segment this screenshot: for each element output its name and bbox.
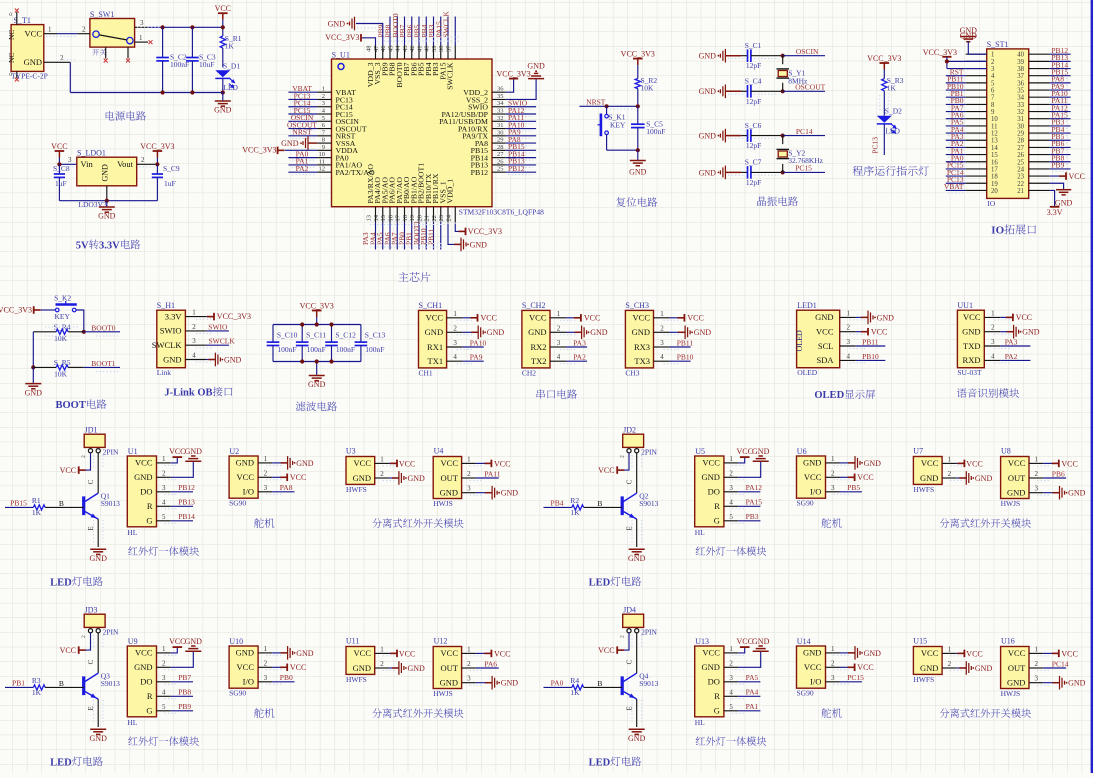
svg-text:GND: GND	[590, 328, 608, 337]
svg-text:1K: 1K	[570, 508, 580, 517]
svg-text:GND: GND	[236, 458, 254, 468]
svg-text:33: 33	[497, 108, 504, 115]
svg-text:R: R	[147, 501, 153, 511]
svg-text:VCC_3V3: VCC_3V3	[867, 54, 901, 63]
svg-text:13: 13	[991, 138, 998, 145]
svg-text:VCC: VCC	[804, 472, 822, 482]
svg-text:HL: HL	[127, 528, 137, 537]
svg-text:GND: GND	[353, 663, 371, 673]
svg-text:S_C1: S_C1	[745, 41, 762, 50]
svg-text:B: B	[597, 679, 602, 688]
svg-text:1: 1	[847, 309, 851, 317]
svg-text:GND: GND	[975, 664, 993, 673]
svg-text:100nF: 100nF	[336, 345, 355, 354]
svg-text:GND: GND	[214, 106, 232, 115]
svg-text:28: 28	[1017, 138, 1024, 145]
svg-text:VCC: VCC	[354, 458, 372, 468]
svg-text:VCC: VCC	[215, 4, 231, 13]
svg-text:GND: GND	[527, 62, 545, 71]
svg-text:C: C	[87, 659, 95, 664]
svg-text:SWCLK: SWCLK	[442, 11, 451, 38]
svg-text:PA1: PA1	[746, 702, 759, 711]
svg-text:U6: U6	[797, 447, 807, 456]
svg-text:1: 1	[831, 455, 835, 463]
svg-text:11: 11	[991, 123, 998, 130]
svg-text:VCC: VCC	[426, 313, 444, 323]
svg-text:OUT: OUT	[1008, 663, 1026, 673]
svg-text:VCC_3V3: VCC_3V3	[140, 142, 174, 151]
svg-text:1K: 1K	[887, 83, 897, 92]
svg-text:3: 3	[453, 339, 457, 347]
svg-text:OUT: OUT	[1008, 473, 1026, 483]
svg-text:9: 9	[991, 109, 995, 116]
svg-text:STM32F103C8T6_LQFP48: STM32F103C8T6_LQFP48	[459, 208, 544, 217]
svg-text:U10: U10	[229, 637, 243, 646]
svg-text:PB0: PB0	[280, 673, 293, 682]
svg-text:VCC: VCC	[237, 472, 255, 482]
svg-text:GND: GND	[487, 328, 505, 337]
svg-text:12pF: 12pF	[746, 178, 761, 187]
svg-text:4: 4	[847, 352, 851, 360]
svg-text:5: 5	[162, 703, 166, 711]
svg-text:GND: GND	[501, 489, 519, 498]
svg-text:Vin: Vin	[81, 159, 94, 169]
svg-text:PB10: PB10	[677, 353, 694, 362]
svg-text:CH1: CH1	[419, 368, 433, 377]
svg-text:37: 37	[1017, 73, 1024, 80]
svg-text:PB11: PB11	[862, 337, 879, 346]
svg-text:PB14: PB14	[178, 512, 195, 521]
svg-text:31: 31	[1017, 116, 1024, 123]
svg-text:1: 1	[264, 645, 268, 653]
svg-text:CH3: CH3	[625, 368, 639, 377]
svg-text:GND: GND	[90, 734, 108, 743]
svg-text:30: 30	[1017, 123, 1024, 130]
svg-text:3: 3	[322, 100, 325, 107]
svg-text:6: 6	[991, 88, 995, 95]
svg-text:PC13: PC13	[871, 137, 880, 154]
svg-text:1uF: 1uF	[55, 179, 67, 188]
svg-text:GND: GND	[1068, 679, 1086, 688]
svg-text:1: 1	[729, 455, 733, 463]
svg-text:4: 4	[162, 498, 166, 506]
svg-text:VCC: VCC	[51, 142, 67, 151]
svg-text:32: 32	[1017, 109, 1024, 116]
svg-text:PA3: PA3	[1005, 337, 1018, 346]
svg-text:VCC: VCC	[921, 458, 939, 468]
svg-text:HWFS: HWFS	[346, 485, 367, 494]
svg-text:DO: DO	[708, 487, 720, 497]
svg-text:S_C8: S_C8	[53, 164, 70, 173]
svg-text:10K: 10K	[54, 334, 68, 343]
svg-text:2: 2	[831, 659, 835, 667]
svg-text:JD4: JD4	[623, 606, 636, 615]
svg-text:1K: 1K	[32, 688, 42, 697]
svg-text:S_C11: S_C11	[306, 330, 326, 339]
svg-text:3.3V: 3.3V	[165, 311, 183, 321]
svg-text:GND: GND	[224, 355, 242, 364]
svg-text:LED: LED	[50, 757, 72, 768]
svg-text:4: 4	[162, 688, 166, 696]
svg-text:PB8: PB8	[178, 688, 191, 697]
svg-text:GND: GND	[90, 554, 108, 563]
svg-text:2: 2	[1035, 660, 1039, 668]
svg-text:RXD: RXD	[963, 355, 981, 365]
svg-text:PA8: PA8	[280, 483, 293, 492]
svg-text:VCC: VCC	[1008, 648, 1026, 658]
svg-text:VCC_3V3: VCC_3V3	[0, 306, 32, 315]
svg-text:8MHz: 8MHz	[788, 76, 808, 85]
svg-text:U13: U13	[695, 637, 709, 646]
svg-text:VCC: VCC	[237, 662, 255, 672]
svg-text:Link: Link	[157, 368, 171, 377]
svg-text:PC14: PC14	[796, 127, 813, 136]
svg-text:JD2: JD2	[623, 426, 636, 435]
svg-text:NRST: NRST	[586, 98, 606, 107]
svg-text:HWJS: HWJS	[433, 689, 453, 698]
svg-text:TYPE-C-2P: TYPE-C-2P	[11, 72, 48, 81]
svg-text:VCC_3V3: VCC_3V3	[923, 48, 957, 57]
svg-text:GND: GND	[752, 447, 770, 456]
svg-text:S_T1: S_T1	[14, 16, 31, 25]
svg-text:24: 24	[1017, 166, 1024, 173]
svg-text:B: B	[59, 679, 64, 688]
svg-text:2: 2	[264, 659, 268, 667]
svg-text:47: 47	[373, 45, 380, 52]
svg-text:OUT: OUT	[441, 663, 459, 673]
svg-text:40: 40	[424, 46, 431, 53]
svg-text:29: 29	[497, 137, 504, 144]
svg-text:GND: GND	[960, 32, 978, 41]
svg-text:S_H1: S_H1	[157, 301, 175, 310]
svg-text:HWJS: HWJS	[433, 499, 453, 508]
svg-text:2: 2	[162, 659, 166, 667]
svg-text:GND: GND	[408, 474, 426, 483]
svg-text:DO: DO	[140, 677, 152, 687]
svg-text:PA2: PA2	[296, 164, 309, 173]
svg-text:3: 3	[162, 484, 166, 492]
svg-text:VCC: VCC	[687, 314, 703, 323]
svg-text:VCC: VCC	[399, 649, 415, 658]
svg-text:VCC: VCC	[354, 648, 372, 658]
svg-text:S_C6: S_C6	[745, 121, 762, 130]
svg-text:GND: GND	[920, 663, 938, 673]
svg-text:OLED: OLED	[814, 390, 844, 401]
svg-text:VCC: VCC	[1069, 172, 1085, 181]
svg-text:GND: GND	[470, 240, 488, 249]
svg-text:LED: LED	[885, 126, 900, 135]
svg-text:25: 25	[497, 166, 504, 173]
svg-text:2: 2	[162, 469, 166, 477]
svg-text:E: E	[87, 526, 95, 530]
svg-text:S_C9: S_C9	[163, 164, 180, 173]
svg-text:GND: GND	[25, 388, 43, 397]
svg-text:U4: U4	[434, 447, 444, 456]
svg-text:VCC: VCC	[135, 458, 153, 468]
svg-text:4: 4	[729, 498, 733, 506]
svg-text:12pF: 12pF	[746, 61, 761, 70]
svg-text:S_C13: S_C13	[365, 330, 386, 339]
svg-text:GND: GND	[1022, 328, 1040, 337]
svg-text:S9013: S9013	[639, 679, 658, 688]
svg-text:PA6: PA6	[484, 659, 497, 668]
svg-text:GND: GND	[628, 734, 646, 743]
svg-text:26: 26	[497, 158, 504, 165]
svg-text:S_CH2: S_CH2	[522, 301, 546, 310]
svg-text:10uF: 10uF	[199, 60, 214, 69]
svg-text:LED: LED	[50, 577, 72, 588]
svg-text:3: 3	[831, 674, 835, 682]
svg-text:2: 2	[467, 470, 471, 478]
svg-text:LED1: LED1	[797, 301, 817, 310]
svg-text:GND: GND	[962, 327, 980, 337]
svg-text:RX2: RX2	[530, 342, 546, 352]
svg-text:5V: 5V	[76, 240, 89, 251]
svg-text:PA15: PA15	[746, 498, 763, 507]
svg-text:3: 3	[467, 675, 471, 683]
svg-text:VCC: VCC	[481, 314, 497, 323]
svg-text:G: G	[714, 706, 720, 716]
svg-text:S_C7: S_C7	[745, 158, 762, 167]
svg-text:2: 2	[192, 323, 196, 331]
svg-text:2: 2	[991, 59, 995, 66]
svg-text:PA12: PA12	[746, 483, 763, 492]
svg-text:28: 28	[497, 144, 504, 151]
svg-text:SU-03T: SU-03T	[957, 368, 982, 377]
svg-text:OLED: OLED	[795, 330, 804, 352]
svg-text:B: B	[597, 499, 602, 508]
svg-text:PB5: PB5	[847, 483, 860, 492]
svg-text:36: 36	[497, 86, 504, 93]
svg-text:GND: GND	[185, 447, 203, 456]
svg-text:GND: GND	[98, 212, 116, 221]
svg-text:2: 2	[467, 660, 471, 668]
svg-text:C: C	[87, 479, 95, 484]
svg-text:HL: HL	[127, 718, 137, 727]
svg-text:1K: 1K	[570, 688, 580, 697]
svg-text:VCC_3V3: VCC_3V3	[325, 33, 359, 42]
svg-text:39: 39	[431, 46, 438, 53]
svg-text:2: 2	[81, 635, 87, 638]
svg-text:5: 5	[729, 703, 733, 711]
svg-text:GND: GND	[134, 662, 152, 672]
svg-text:1: 1	[162, 645, 166, 653]
svg-text:4: 4	[729, 688, 733, 696]
svg-text:3: 3	[140, 19, 144, 27]
svg-text:VCC: VCC	[135, 648, 153, 658]
svg-text:PA9: PA9	[470, 353, 483, 362]
svg-text:2: 2	[620, 455, 626, 458]
svg-text:GND: GND	[281, 139, 299, 148]
svg-text:VCC_3V3: VCC_3V3	[217, 312, 251, 321]
svg-text:GND: GND	[440, 488, 458, 498]
svg-text:S_C4: S_C4	[745, 77, 762, 86]
svg-text:NRST: NRST	[292, 128, 312, 137]
svg-text:3: 3	[264, 674, 268, 682]
svg-text:PB9: PB9	[178, 702, 191, 711]
svg-text:SG90: SG90	[229, 499, 246, 508]
svg-text:VCC: VCC	[60, 466, 76, 475]
svg-text:LED: LED	[589, 757, 611, 768]
svg-text:15: 15	[991, 152, 998, 159]
svg-text:5: 5	[729, 513, 733, 521]
svg-text:JD3: JD3	[85, 606, 98, 615]
svg-text:18: 18	[991, 174, 998, 181]
svg-text:IO: IO	[991, 225, 1004, 237]
svg-text:1K: 1K	[225, 42, 235, 51]
svg-text:GND: GND	[632, 327, 650, 337]
svg-text:VCC: VCC	[816, 327, 834, 337]
svg-text:VCC: VCC	[921, 648, 939, 658]
svg-text:GND: GND	[101, 164, 110, 182]
svg-text:1: 1	[192, 309, 196, 317]
svg-text:2: 2	[620, 635, 626, 638]
svg-text:NC: NC	[7, 30, 16, 40]
svg-text:5: 5	[162, 513, 166, 521]
svg-text:4: 4	[991, 73, 995, 80]
svg-text:3: 3	[660, 339, 664, 347]
svg-text:1: 1	[453, 310, 457, 318]
svg-text:GND: GND	[815, 312, 833, 322]
svg-text:R2: R2	[570, 496, 579, 505]
svg-text:S_D2: S_D2	[885, 107, 902, 116]
svg-text:PA2: PA2	[1005, 352, 1018, 361]
svg-text:44: 44	[395, 45, 402, 52]
svg-text:3: 3	[991, 338, 995, 346]
svg-text:U14: U14	[797, 637, 811, 646]
svg-text:25: 25	[1017, 159, 1024, 166]
svg-text:GND: GND	[803, 648, 821, 658]
svg-text:2: 2	[322, 93, 325, 100]
svg-text:1: 1	[729, 645, 733, 653]
svg-text:S_U1: S_U1	[332, 51, 350, 60]
svg-text:4: 4	[991, 352, 995, 360]
svg-text:SWIO: SWIO	[160, 326, 182, 336]
svg-text:2: 2	[264, 469, 268, 477]
svg-text:LED: LED	[223, 83, 238, 92]
svg-text:SWCLK: SWCLK	[209, 337, 236, 346]
svg-text:KEY: KEY	[610, 121, 626, 130]
svg-text:8: 8	[991, 102, 995, 109]
svg-text:GND: GND	[353, 473, 371, 483]
svg-text:2: 2	[60, 54, 64, 62]
svg-text:43: 43	[402, 46, 409, 53]
svg-text:E: E	[626, 706, 634, 710]
svg-text:100nF: 100nF	[365, 345, 384, 354]
svg-text:PB12: PB12	[471, 168, 488, 177]
svg-text:PB10: PB10	[862, 352, 879, 361]
svg-text:VCC: VCC	[966, 459, 982, 468]
svg-text:PB6: PB6	[1052, 469, 1065, 478]
svg-text:PB13: PB13	[178, 498, 195, 507]
svg-text:1: 1	[162, 455, 166, 463]
svg-text:GND: GND	[699, 132, 717, 141]
svg-text:VCC: VCC	[169, 637, 185, 646]
svg-text:32: 32	[497, 115, 504, 122]
svg-text:VCC: VCC	[804, 662, 822, 672]
svg-text:U12: U12	[434, 637, 448, 646]
svg-text:10: 10	[319, 151, 326, 158]
svg-text:S9013: S9013	[639, 499, 658, 508]
svg-text:R4: R4	[570, 676, 579, 685]
svg-text:HL: HL	[695, 718, 705, 727]
svg-text:PB3: PB3	[746, 512, 759, 521]
svg-text:1: 1	[322, 86, 325, 93]
svg-text:41: 41	[416, 46, 423, 53]
svg-text:10: 10	[991, 116, 998, 123]
svg-text:HWFS: HWFS	[913, 675, 934, 684]
svg-text:37: 37	[445, 45, 452, 52]
svg-text:12pF: 12pF	[746, 97, 761, 106]
svg-text:42: 42	[409, 46, 416, 53]
svg-text:PB1: PB1	[12, 679, 25, 688]
svg-text:2: 2	[847, 324, 851, 332]
svg-text:JD1: JD1	[85, 426, 98, 435]
svg-text:VCC: VCC	[1016, 313, 1032, 322]
svg-text:14: 14	[991, 145, 998, 152]
svg-text:IO: IO	[987, 199, 995, 208]
svg-text:1: 1	[1035, 455, 1039, 463]
svg-text:BOOT: BOOT	[56, 400, 86, 411]
svg-text:S9013: S9013	[101, 679, 120, 688]
svg-text:VCC: VCC	[399, 459, 415, 468]
svg-text:G: G	[714, 516, 720, 526]
svg-text:GND: GND	[629, 168, 647, 177]
svg-text:C: C	[626, 659, 634, 664]
svg-text:3: 3	[847, 338, 851, 346]
svg-text:40: 40	[1017, 52, 1024, 59]
svg-text:2: 2	[1035, 470, 1039, 478]
svg-text:C: C	[626, 479, 634, 484]
svg-text:26: 26	[1017, 152, 1024, 159]
svg-text:VCC: VCC	[857, 663, 873, 672]
svg-text:U3: U3	[346, 447, 356, 456]
svg-text:1: 1	[660, 310, 664, 318]
svg-text:HL: HL	[695, 528, 705, 537]
svg-text:29: 29	[1017, 131, 1024, 138]
svg-text:VCC: VCC	[702, 458, 720, 468]
svg-text:B: B	[59, 499, 64, 508]
svg-text:2: 2	[81, 455, 87, 458]
svg-text:GND: GND	[296, 649, 314, 658]
svg-text:OLED: OLED	[797, 368, 818, 377]
svg-text:PA4: PA4	[746, 688, 759, 697]
svg-text:RX3: RX3	[634, 342, 650, 352]
svg-text:R: R	[714, 691, 720, 701]
svg-text:TX2: TX2	[531, 356, 547, 366]
svg-text:GND: GND	[1007, 678, 1025, 688]
svg-text:3.3V: 3.3V	[99, 240, 120, 251]
svg-text:2: 2	[991, 324, 995, 332]
svg-text:GND: GND	[528, 327, 546, 337]
svg-text:S_C10: S_C10	[277, 330, 298, 339]
svg-text:VCC: VCC	[702, 648, 720, 658]
svg-text:SDA: SDA	[816, 355, 834, 365]
svg-text:PB7: PB7	[178, 673, 191, 682]
svg-text:GND: GND	[628, 554, 646, 563]
svg-text:17: 17	[991, 166, 998, 173]
svg-text:3: 3	[162, 674, 166, 682]
svg-text:PA11: PA11	[484, 469, 500, 478]
svg-text:3: 3	[467, 485, 471, 493]
svg-text:3: 3	[557, 339, 561, 347]
svg-text:VCC_3V3: VCC_3V3	[468, 227, 502, 236]
svg-text:BOOT0: BOOT0	[91, 324, 115, 333]
svg-text:GND: GND	[134, 472, 152, 482]
svg-text:5: 5	[322, 115, 325, 122]
svg-text:VCC_3V3: VCC_3V3	[242, 146, 276, 155]
svg-text:1K: 1K	[32, 508, 42, 517]
